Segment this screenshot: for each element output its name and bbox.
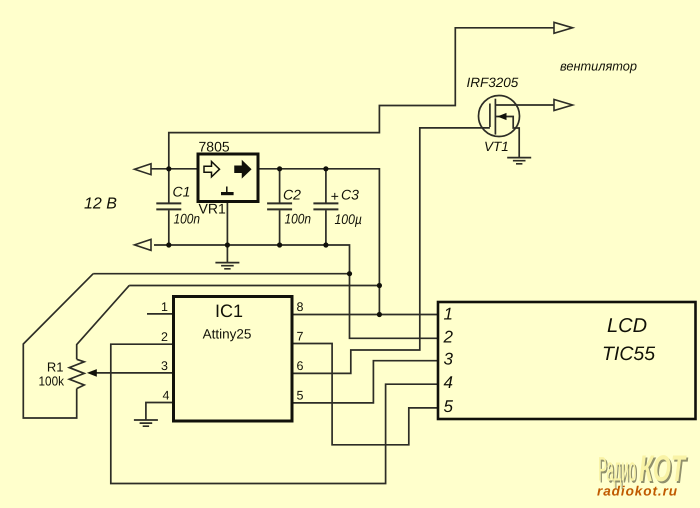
VT1 source arrowhead (filled) [497,113,506,120]
capacitor C1 plates [156,203,181,209]
resistor R1 zigzag [69,359,84,388]
svg-text:LCD: LCD [607,315,647,337]
capacitor C3 plates [313,203,338,209]
arrow 12V input bottom (left-pointing open) [135,239,152,250]
svg-text:1: 1 [444,304,453,323]
LCD module box [438,302,696,419]
wire VR1 ground pin [226,202,228,263]
node C3 bottom [323,242,328,247]
wire R1 top lead diagonal [77,286,130,360]
IC IC1 Attiny25 box [174,297,293,422]
wire IC1 pin6 to VT1 gate [292,128,490,374]
svg-text:Attiny25: Attiny25 [203,327,252,342]
wire IC1 pin7 to LCD pin5 [292,344,438,445]
R1 wiper arrowhead (filled) [87,369,97,377]
arrow 12V input top (left-pointing open) [135,164,152,175]
wire +5V horizontal above IC1 [129,285,379,287]
node +5V rail junction [377,283,382,288]
svg-text:7: 7 [297,330,304,344]
wire VT1 source to ground [495,117,519,158]
ground symbol under VT1 [507,158,531,164]
transistor VT1 body circle [479,96,520,137]
node 12V / C1 top [166,166,171,171]
VR1 common tab symbol [226,187,228,193]
wire top rail 12V input to 7805 [151,168,198,170]
svg-text:100µ: 100µ [335,211,363,227]
svg-text:TIC55: TIC55 [602,343,655,365]
svg-text:VR1: VR1 [199,201,226,217]
wire IC1 pin5 to LCD pin3 [292,361,438,403]
regulator VR1 box [198,154,258,202]
junction dots [166,166,382,317]
capacitor C3 leads [325,169,327,245]
capacitor C1 leads [168,169,170,245]
node VR1 ground [225,242,230,247]
svg-text:1: 1 [161,300,168,314]
svg-text:C1: C1 [173,184,191,200]
svg-text:3: 3 [444,350,454,369]
wire IC1 pin4 to ground [146,403,174,420]
svg-text:4: 4 [444,373,453,392]
watermark Radio KOT logo [597,448,689,499]
svg-text:IRF3205: IRF3205 [467,75,519,90]
wire VT1 drain to fan arrow [495,104,553,106]
svg-text:radiokot.ru: radiokot.ru [597,484,678,499]
wire R1 wiper to IC1 pin3 [96,372,174,374]
svg-text:IC1: IC1 [215,301,243,321]
capacitor C2 plates [267,203,292,209]
wire IC1 pin2 to LCD pin4 [111,344,438,483]
svg-text:7805: 7805 [199,139,230,155]
svg-text:VT1: VT1 [484,139,509,154]
wire R1 bottom lead to ground horizontal [23,274,93,418]
svg-text:100n: 100n [174,210,201,226]
ground symbol under IC1 pin4 [134,420,158,426]
svg-text:5: 5 [297,389,304,403]
wire ground horizontal above IC1 [93,273,349,275]
svg-text:5: 5 [444,397,454,416]
VR1 output arrow (filled) [235,162,251,177]
node C1 bottom [166,242,171,247]
wire ground rail riser to LCD pin2 [154,245,438,338]
svg-text:8: 8 [297,300,304,314]
svg-text:3: 3 [161,359,168,373]
arrow fan supply (right-pointing open) [554,22,573,33]
node C2 top [277,166,282,171]
VR1 input arrow (open) [204,162,220,177]
svg-text:+: + [331,188,339,204]
node C3 top [323,166,328,171]
svg-text:C3: C3 [341,187,359,203]
transistor VT1 gate bar [489,104,491,128]
wire IC1 pin1 stub [147,313,174,315]
svg-text:6: 6 [297,359,304,373]
svg-text:C2: C2 [283,187,301,203]
svg-text:вентилятор: вентилятор [560,59,637,74]
svg-text:R1: R1 [47,360,64,375]
capacitor C2 leads [279,169,281,245]
svg-text:2: 2 [161,330,168,344]
svg-text:12 В: 12 В [84,196,117,213]
svg-text:2: 2 [443,327,454,346]
ground symbol under VR1 [215,263,239,269]
wire 12V riser to fan supply arrow [169,28,554,169]
node +5V to pin8 [377,312,382,317]
svg-text:100k: 100k [39,373,65,388]
node C2 bottom [277,242,282,247]
arrow fan drain (right-pointing open) [554,100,573,111]
svg-text:4: 4 [163,389,170,403]
transistor VT1 channel bar [494,99,496,135]
svg-text:100n: 100n [285,210,312,226]
node ground rail junction [347,271,352,276]
wire IC1 pin8 to LCD pin1 [292,314,438,316]
wire 7805 output rail and +5V riser [258,169,379,315]
